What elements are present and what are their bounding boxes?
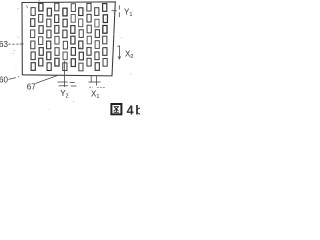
- svg-text:X1: X1: [91, 90, 99, 101]
- svg-text:67: 67: [27, 82, 36, 91]
- svg-text:X2: X2: [125, 50, 133, 61]
- svg-text:4: 4: [127, 103, 134, 117]
- svg-text:60: 60: [0, 75, 8, 84]
- svg-text:b: b: [135, 103, 140, 117]
- svg-text:Y2: Y2: [60, 89, 68, 100]
- svg-text:63: 63: [0, 40, 8, 49]
- svg-text:Y1: Y1: [124, 8, 132, 19]
